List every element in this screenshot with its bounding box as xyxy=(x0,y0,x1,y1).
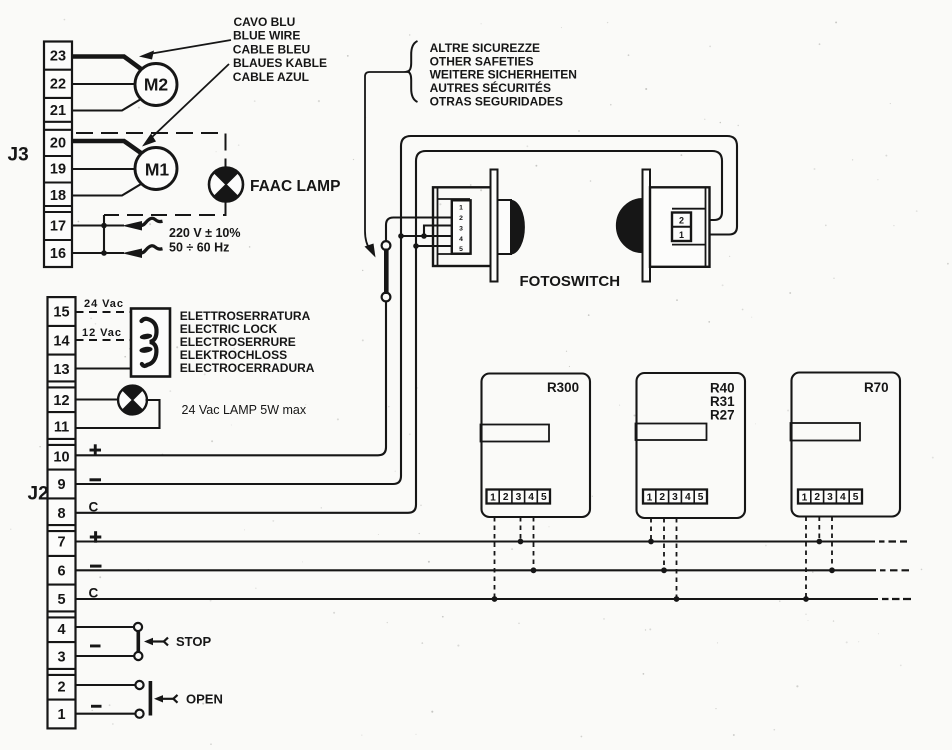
svg-text:3: 3 xyxy=(57,650,65,666)
svg-text:11: 11 xyxy=(54,420,69,436)
svg-text:21: 21 xyxy=(50,103,66,119)
svg-text:5: 5 xyxy=(459,246,463,253)
dashed drop R300 pin4 to bus - xyxy=(533,517,535,570)
svg-text:14: 14 xyxy=(53,333,69,349)
OPEN contact bar (NO) xyxy=(149,681,153,716)
svg-text:5: 5 xyxy=(853,492,859,503)
svg-text:J3: J3 xyxy=(8,145,29,166)
svg-text:CABLE AZUL: CABLE AZUL xyxy=(233,70,309,84)
TX inner panel bottom xyxy=(672,244,706,246)
label - at J2-9 xyxy=(90,478,102,481)
wire J2-1 to OPEN xyxy=(76,713,136,715)
R40 box xyxy=(637,373,746,518)
label - at J2-6 xyxy=(90,565,102,568)
wire B bridge to RX strip xyxy=(424,226,452,237)
svg-text:10: 10 xyxy=(53,449,69,465)
mains arrow at wire 16 xyxy=(122,246,163,258)
RX body inner wall xyxy=(437,187,439,266)
svg-text:J2: J2 xyxy=(28,484,49,505)
svg-text:15: 15 xyxy=(53,305,69,321)
electric lock body xyxy=(131,309,170,377)
svg-text:AUTRES SÉCURITÉS: AUTRES SÉCURITÉS xyxy=(430,80,551,95)
svg-text:18: 18 xyxy=(50,188,66,204)
svg-text:ELETTROSERRATURA: ELETTROSERRATURA xyxy=(180,309,311,323)
svg-text:WEITERE SICHERHEITEN: WEITERE SICHERHEITEN xyxy=(430,68,577,82)
motor M1 xyxy=(135,148,177,190)
contact bar xyxy=(384,249,389,295)
wire J2-4 to STOP xyxy=(76,626,135,628)
arrow note to M1 wire xyxy=(150,64,229,139)
svg-text:220 V ± 10%: 220 V ± 10% xyxy=(169,226,241,240)
TX lens dark xyxy=(617,199,643,253)
wire lamp to J2-11 xyxy=(76,400,160,428)
wire J3-16 to mains xyxy=(72,252,124,254)
svg-text:CABLE BLEU: CABLE BLEU xyxy=(233,42,310,56)
svg-text:50 ÷ 60 Hz: 50 ÷ 60 Hz xyxy=(169,241,229,255)
svg-text:22: 22 xyxy=(50,77,66,93)
wire contact top to RX strip (wire A) xyxy=(386,218,452,242)
svg-text:16: 16 xyxy=(50,246,66,262)
svg-text:ELEKTROCHLOSS: ELEKTROCHLOSS xyxy=(180,348,287,362)
junction dot node 8/RX xyxy=(413,243,419,249)
TX body xyxy=(650,187,710,266)
svg-text:4: 4 xyxy=(528,492,534,503)
J3 terminal numbers 23..16 xyxy=(50,49,66,263)
wire J3-20 to M1 (thick blue wire) xyxy=(72,141,141,153)
svg-text:1: 1 xyxy=(57,707,65,723)
RX inner panel top xyxy=(438,198,471,200)
wire J3-23 to M2 (thick blue wire) xyxy=(72,57,141,70)
svg-text:1: 1 xyxy=(802,493,808,504)
svg-text:4: 4 xyxy=(840,492,846,503)
wire J2-2 to OPEN xyxy=(76,684,136,686)
terminal block J3 outline xyxy=(44,42,72,268)
dashed drop R40 pin2 to bus - xyxy=(663,518,665,570)
R70 box xyxy=(792,373,901,517)
svg-text:R27: R27 xyxy=(710,408,735,423)
wire J2-8 to RX and around to TX pin2 (inner loop) xyxy=(76,151,723,513)
bus wire J2-6 (-) xyxy=(76,569,877,571)
svg-text:CAVO BLU: CAVO BLU xyxy=(234,15,296,29)
svg-text:24 Vac LAMP 5W max: 24 Vac LAMP 5W max xyxy=(182,403,307,417)
electric lock label block xyxy=(180,309,315,375)
junction dot bridge xyxy=(421,233,427,239)
wire J2-12 to lamp xyxy=(76,398,119,400)
bus 7 dash-dot tail xyxy=(879,540,907,542)
arrow note to M2 wire xyxy=(149,40,231,54)
svg-text:19: 19 xyxy=(50,162,66,178)
R70 pin numbers 1-5 xyxy=(802,492,859,504)
svg-text:20: 20 xyxy=(50,136,66,152)
R40 terminal strip xyxy=(643,490,707,504)
RX terminal strip xyxy=(452,200,471,253)
svg-text:7: 7 xyxy=(57,535,65,551)
R40 slot xyxy=(636,424,707,441)
STOP contact top circle xyxy=(134,623,142,631)
RX inner panel bottom xyxy=(438,253,471,255)
svg-text:2: 2 xyxy=(679,216,684,226)
blue-wire note text xyxy=(233,15,327,84)
J2 terminal numbers 15..1 xyxy=(53,305,69,724)
svg-text:OTHER SAFETIES: OTHER SAFETIES xyxy=(430,54,534,68)
FAAC lamp symbol xyxy=(209,168,243,202)
svg-text:4: 4 xyxy=(57,622,65,638)
svg-text:17: 17 xyxy=(50,219,66,235)
svg-text:ALTRE SICUREZZE: ALTRE SICUREZZE xyxy=(430,41,540,55)
svg-text:M2: M2 xyxy=(144,75,169,95)
RX lens housing xyxy=(498,200,512,254)
svg-text:OPEN: OPEN xyxy=(186,691,223,706)
RX mounting plate xyxy=(491,170,498,282)
svg-text:ELECTROSERRURE: ELECTROSERRURE xyxy=(180,335,296,349)
wire J3-17 to mains xyxy=(72,224,124,226)
label - at J2-3 xyxy=(90,645,101,648)
dashed drop R40 pin1 to bus + xyxy=(650,518,652,542)
R300 slot xyxy=(481,425,550,442)
J2 cell dividers xyxy=(48,326,76,700)
svg-text:12: 12 xyxy=(53,393,69,409)
R300 pin numbers 1-5 xyxy=(490,492,547,504)
svg-text:3: 3 xyxy=(827,492,833,503)
RX lens dark xyxy=(511,201,524,254)
safeties label block xyxy=(430,41,577,108)
TX terminal block xyxy=(672,213,691,242)
dashed wire J2-15 to lock xyxy=(76,311,132,313)
dashed wire FAAC lamp return to mains node xyxy=(104,202,226,216)
junction on wire 16 xyxy=(101,250,107,256)
svg-text:2: 2 xyxy=(57,679,65,695)
svg-text:24 Vac: 24 Vac xyxy=(84,298,123,310)
svg-text:5: 5 xyxy=(541,492,547,503)
brace xyxy=(408,41,418,102)
TX inner panel top xyxy=(672,208,706,210)
svg-text:4: 4 xyxy=(459,236,463,243)
STOP contact bar (NC) xyxy=(137,631,141,652)
svg-text:9: 9 xyxy=(57,477,65,493)
R300 box xyxy=(482,374,591,518)
TX body inner wall xyxy=(705,187,707,266)
svg-text:2: 2 xyxy=(659,492,665,503)
dashed drop R300 pin3 to bus + xyxy=(520,517,522,542)
svg-text:3: 3 xyxy=(459,226,463,233)
svg-text:FOTOSWITCH: FOTOSWITCH xyxy=(520,273,621,290)
svg-text:FAAC LAMP: FAAC LAMP xyxy=(250,178,340,195)
svg-text:2: 2 xyxy=(814,492,820,503)
R70 slot xyxy=(791,423,861,441)
R40 pin numbers 1-5 xyxy=(647,492,704,504)
svg-text:M1: M1 xyxy=(145,160,170,180)
svg-text:6: 6 xyxy=(57,563,65,579)
dashed drop R300 pin1 to bus C xyxy=(494,517,496,599)
OPEN arrow xyxy=(154,695,163,702)
junction dot node 9/RX xyxy=(398,233,404,239)
bus wire J2-5 (C) xyxy=(76,598,879,600)
svg-text:1: 1 xyxy=(490,493,496,504)
svg-text:BLUE WIRE: BLUE WIRE xyxy=(233,29,300,43)
dashed drop R70 pin3 to bus - xyxy=(831,517,833,571)
svg-text:BLAUES KABLE: BLAUES KABLE xyxy=(233,56,327,70)
mains arrow at wire 17 xyxy=(122,218,163,230)
svg-text:ELECTRIC LOCK: ELECTRIC LOCK xyxy=(180,322,278,336)
label + at J2-7 xyxy=(90,531,102,543)
J3 cell dividers xyxy=(44,70,72,240)
OPEN contact bottom circle xyxy=(135,710,143,718)
wire J3-21 to M2 xyxy=(72,99,141,111)
STOP contact bottom circle xyxy=(134,652,142,660)
svg-text:1: 1 xyxy=(459,205,463,212)
svg-text:13: 13 xyxy=(53,362,69,378)
svg-text:1: 1 xyxy=(679,230,684,240)
R70 terminal strip xyxy=(798,490,862,504)
dashed drop R40 pin3 to bus C xyxy=(676,518,678,599)
svg-text:OTRAS SEGURIDADES: OTRAS SEGURIDADES xyxy=(430,94,563,108)
svg-text:4: 4 xyxy=(685,492,691,503)
OPEN contact top circle xyxy=(135,681,143,689)
svg-text:23: 23 xyxy=(50,49,66,65)
junction on wire 17 xyxy=(101,223,107,229)
svg-text:STOP: STOP xyxy=(176,634,211,649)
wire mains node vertical xyxy=(103,215,105,253)
wire D junction to RX strip xyxy=(416,245,452,247)
dashed wire J3-20 to FAAC lamp xyxy=(76,133,226,167)
svg-text:2: 2 xyxy=(459,215,463,222)
bus 6 dash-dot tail xyxy=(880,569,909,571)
TX mounting plate xyxy=(643,170,651,282)
wire J3-18 to M1 xyxy=(72,184,141,196)
STOP arrow xyxy=(144,638,153,645)
svg-text:3: 3 xyxy=(672,492,678,503)
svg-text:1: 1 xyxy=(647,493,653,504)
contact bottom circle xyxy=(382,293,391,302)
svg-text:12 Vac: 12 Vac xyxy=(82,327,121,339)
wire J2-10 to safety contact xyxy=(76,301,387,455)
svg-text:3: 3 xyxy=(516,492,522,503)
wire C junction to RX strip xyxy=(401,235,452,237)
dashed drop R70 pin2 to bus + xyxy=(818,517,820,542)
lamp 24Vac symbol xyxy=(118,386,147,415)
wire J3-19 to M1 xyxy=(72,168,136,170)
terminal block J2 outline xyxy=(48,297,76,728)
wire J2-13 to lock xyxy=(76,367,132,369)
svg-text:R300: R300 xyxy=(547,380,579,395)
svg-text:5: 5 xyxy=(57,592,65,608)
svg-text:5: 5 xyxy=(698,492,704,503)
svg-text:2: 2 xyxy=(503,492,509,503)
motor M2 xyxy=(135,64,177,106)
bus wire J2-7 (+) xyxy=(76,540,876,542)
bus 5 dash-dot tail xyxy=(882,598,911,600)
svg-text:ELECTROCERRADURA: ELECTROCERRADURA xyxy=(180,361,315,375)
wire J3-22 to M2 xyxy=(72,83,136,85)
pointer arrowhead xyxy=(365,244,376,258)
wire J2-9 to RX and around to TX pin1 (outer loop) xyxy=(76,136,738,484)
electric lock coil xyxy=(142,319,157,366)
contact top circle xyxy=(382,241,391,250)
pointer line from bracket to contact xyxy=(365,72,410,251)
wire J2-3 to STOP xyxy=(76,655,135,657)
dashed wire J2-14 to lock xyxy=(76,339,132,341)
RX strip pin numbers xyxy=(459,205,463,254)
svg-text:R70: R70 xyxy=(864,380,889,395)
R300 terminal strip xyxy=(487,490,551,504)
label - at J2-1 xyxy=(91,705,102,708)
label + at J2-10 xyxy=(90,444,102,456)
RX body xyxy=(433,187,493,266)
svg-text:8: 8 xyxy=(57,506,65,522)
dashed drop R70 pin1 to bus C xyxy=(805,517,807,600)
